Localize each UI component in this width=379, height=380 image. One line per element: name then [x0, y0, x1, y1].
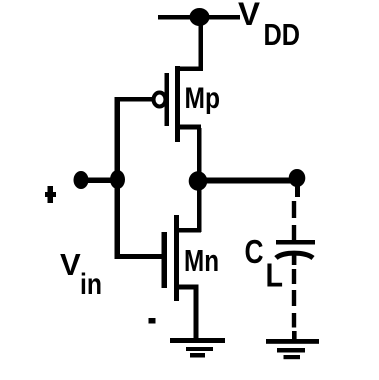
capacitor CL top plate: [276, 240, 315, 245]
ground (Mn source): [170, 338, 225, 358]
label CL: [245, 234, 284, 294]
svg-text:V: V: [60, 247, 81, 282]
transistor Mn gate bar: [162, 232, 168, 288]
wire: VDD rail: [158, 15, 240, 20]
svg-text:Mn: Mn: [184, 243, 219, 278]
transistor Mp channel bar: [175, 66, 180, 142]
wire: Mp source vertical to output: [197, 128, 202, 173]
wire: Mn drain jog: [176, 228, 201, 233]
wire: gate wire bus to bubble: [115, 97, 153, 102]
capacitor CL curved plate: [276, 253, 313, 258]
wire: NMOS gate horizontal: [117, 254, 163, 259]
node: input terminal dot: [74, 171, 89, 189]
wire: dashed lead from CL to ground (lower): [292, 269, 297, 340]
svg-text:Mp: Mp: [185, 82, 221, 115]
svg-text:in: in: [80, 268, 102, 301]
svg-text:L: L: [266, 257, 284, 294]
node: CL top terminal dot: [289, 169, 306, 197]
svg-text:V: V: [238, 0, 261, 32]
wire: Mn drain vertical from output: [197, 188, 202, 232]
label + polarity: [45, 186, 56, 203]
wire: Mp source jog: [176, 125, 201, 130]
transistor Mp gate bar: [165, 73, 170, 126]
wire: Mp drain jog: [177, 67, 203, 72]
stray mark: [149, 318, 156, 324]
node: output junction dot: [189, 171, 208, 191]
wire: input horizontal: [87, 178, 114, 184]
wire: Mp drain vertical from VDD: [199, 17, 204, 71]
label VDD: [238, 0, 300, 52]
svg-text:C: C: [245, 234, 264, 271]
wire: dashed lead from output node to CL (upper): [292, 201, 296, 240]
label Vin: [60, 247, 102, 301]
wire: Mn source jog: [176, 285, 199, 290]
svg-text:DD: DD: [264, 17, 301, 52]
wire: CL center lead: [292, 251, 297, 265]
wire: output horizontal to CL: [206, 178, 295, 184]
wire: gate bus vertical: [115, 97, 121, 259]
wire: Mn source vertical to ground: [194, 288, 199, 339]
transistor Mp gate bubble: [154, 93, 166, 107]
node: VDD junction dot: [190, 8, 210, 26]
node: gate bus junction dot: [110, 170, 125, 189]
ground (CL): [266, 339, 319, 359]
transistor Mn channel bar: [174, 215, 179, 301]
